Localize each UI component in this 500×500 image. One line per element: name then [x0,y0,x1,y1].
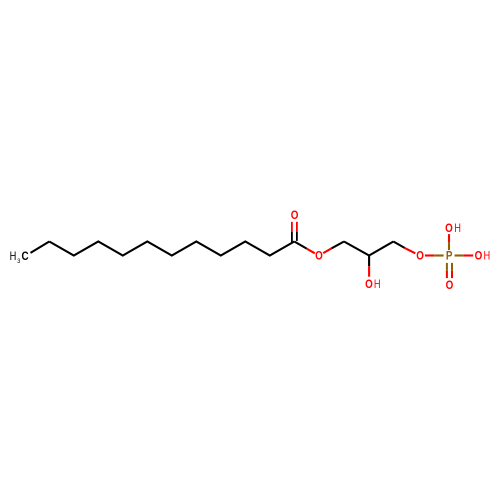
svg-text:O: O [445,223,453,236]
bond P-O5 olive half [448,242,450,250]
bond C12=O1 double left red half [291,222,293,232]
svg-text:H: H [10,250,17,263]
svg-text:H: H [374,278,381,291]
bond C12-O2 black half [294,242,306,249]
bond C15-O4 red half [405,248,416,253]
svg-text:O: O [416,250,424,263]
svg-text:P: P [446,250,453,263]
bond C14-O3 black half [368,256,370,267]
bond P=O7 double left red half [446,271,448,278]
bond C12=O1 double left black half [291,232,293,242]
svg-text:H: H [484,250,491,263]
bond P-O5 red half [448,234,450,242]
svg-text:O: O [291,209,299,222]
svg-text:C: C [22,251,29,264]
bond P=O7 double right olive half [451,263,453,271]
svg-text:O: O [475,250,483,263]
svg-text:O: O [365,278,373,291]
bond C14-C15 [369,242,393,256]
bond C12-O2 red half [307,249,315,254]
wire chain C2-C12 [49,242,294,256]
bond O4-P olive half [434,254,443,256]
bond O2-C13 black half [332,242,344,249]
bond O2-C13 red half [323,248,331,253]
bond C12=O1 double right black half [296,232,298,241]
svg-text:H: H [454,222,461,235]
bond C13-C14 [344,242,369,256]
bond C14-O3 red half [368,266,370,277]
bond P-O6 red half [464,254,473,256]
bond C15-O4 black half [393,242,404,248]
svg-text:O: O [315,250,323,263]
bond P-O6 olive half [455,254,464,256]
bond C1-C2 [31,242,50,253]
bond P=O7 double left olive half [446,263,448,271]
bond C12=O1 double right red half [296,222,298,232]
bond O4-P red half [425,254,434,256]
bond P=O7 double right red half [451,271,453,278]
svg-text:O: O [446,279,454,292]
